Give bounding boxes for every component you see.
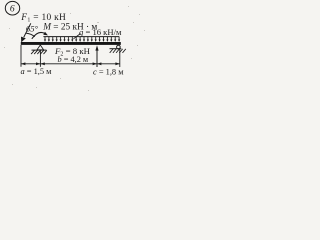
- left pin support: [31, 45, 47, 54]
- extension line at left support: [39, 50, 41, 67]
- extension line at right support: [119, 49, 121, 67]
- node circled number 6: [5, 1, 19, 15]
- force F1 arrow: [21, 23, 31, 42]
- svg-text:c = 1,8 м: c = 1,8 м: [93, 68, 124, 77]
- force F2 arrow (upward): [95, 45, 98, 67]
- svg-text:65°: 65°: [26, 23, 39, 33]
- extension line at beam left end: [20, 45, 22, 67]
- distributed load q comb: [43, 37, 120, 42]
- svg-text:6: 6: [10, 5, 15, 15]
- background: [0, 0, 150, 98]
- svg-text:a = 1,5 м: a = 1,5 м: [21, 67, 53, 76]
- beam: [21, 42, 121, 45]
- svg-text:b = 4,2 м: b = 4,2 м: [58, 55, 89, 64]
- q leader line: [74, 34, 81, 39]
- scan speckle noise: [4, 6, 145, 91]
- angle arc 65: [26, 33, 35, 37]
- dimension line: [21, 63, 120, 65]
- svg-text:q = 16 кН/м: q = 16 кН/м: [79, 27, 122, 37]
- dimension arrowheads: [21, 62, 120, 65]
- right roller support: [110, 45, 126, 53]
- moment M curved arrow: [32, 32, 48, 39]
